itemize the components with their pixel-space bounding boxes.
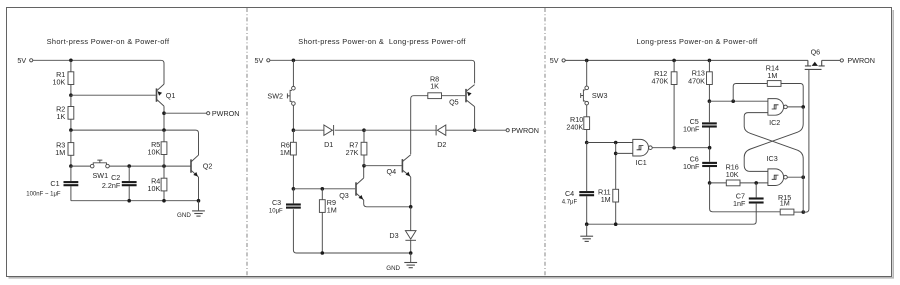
svg-text:SW3: SW3: [592, 91, 608, 100]
label C4 4.7uF: [562, 189, 578, 206]
wire 5V rail to Q5 emitter: [270, 60, 475, 83]
wire IC3 output: [787, 176, 803, 178]
wire D1 cathode to R7 node: [335, 129, 364, 131]
svg-text:Long-press Power-on & Power-of: Long-press Power-on & Power-off: [636, 37, 758, 46]
svg-text:D3: D3: [389, 231, 398, 240]
label C2 2.2nF: [102, 173, 121, 190]
resistor R5: [161, 142, 167, 155]
terminal PWRON P2: [506, 126, 539, 135]
svg-text:Short-press Power-on & Power-o: Short-press Power-on & Power-off: [47, 37, 170, 46]
wire D2 anode to PWRON node: [446, 129, 475, 131]
label R3 1M: [55, 141, 65, 158]
node C7 top: [754, 181, 758, 185]
wire IC2 top input line: [709, 100, 768, 102]
wire C1 leads: [70, 166, 72, 201]
resistor R16: [726, 180, 740, 186]
node rail/SW3: [585, 59, 589, 63]
label R4 10K: [148, 176, 161, 193]
label R1 10K: [53, 70, 66, 87]
diode D1: [324, 125, 334, 135]
svg-text:10K: 10K: [53, 77, 66, 86]
wire R2 leads: [70, 95, 72, 130]
wire R6 leads: [292, 130, 294, 189]
resistor R14: [767, 81, 781, 87]
wire SW3 top lead: [586, 60, 588, 86]
wire C2 leads: [128, 166, 130, 201]
wire latch cross-coupling IC2 out to IC3 input: [744, 107, 803, 171]
wire R7 leads: [363, 130, 365, 166]
node rail/SW2: [292, 59, 296, 63]
label R14 1M: [766, 64, 779, 80]
svg-text:Short-press Power-on & Long-p: Short-press Power-on & Long-press Power-…: [298, 37, 466, 46]
capacitor C4: [579, 192, 594, 195]
capacitor C3: [286, 205, 301, 208]
capacitor C2: [122, 182, 137, 185]
wire SW3 to R10: [586, 105, 588, 117]
resistor R12: [671, 72, 677, 85]
label C1 100nF-1uF: [26, 179, 61, 198]
wire Q3 base line: [293, 188, 355, 190]
svg-text:Q5: Q5: [449, 97, 459, 106]
wire Q6 drain to PWRON: [822, 59, 841, 61]
svg-text:PWRON: PWRON: [847, 56, 875, 65]
svg-text:1M: 1M: [55, 148, 65, 157]
svg-text:Q3: Q3: [339, 191, 349, 200]
node R10/C4/IC1: [585, 141, 589, 145]
label R7 27K: [346, 140, 359, 157]
switch SW1: [90, 160, 109, 168]
wire 5V rail to Q1 emitter: [33, 60, 164, 84]
svg-text:SW2: SW2: [267, 91, 283, 100]
wire IC1 lower input stub: [616, 152, 633, 154]
svg-text:5V: 5V: [255, 56, 264, 65]
ground symbol P3: [580, 224, 593, 241]
node IC2 output: [801, 105, 805, 109]
svg-text:10K: 10K: [726, 170, 739, 179]
wire Q4 base line: [364, 165, 402, 167]
resistor R11: [613, 189, 619, 202]
svg-text:240K: 240K: [566, 122, 583, 131]
svg-text:GND: GND: [177, 212, 191, 219]
node rail/R12: [672, 59, 676, 63]
node rail/R1: [69, 59, 73, 63]
resistor R2: [68, 107, 74, 120]
5V supply terminal P1: [17, 56, 32, 65]
switch SW2: [287, 86, 295, 105]
IC 3 schmitt NAND gate: [768, 169, 787, 186]
resistor R15: [780, 209, 794, 215]
node R2/R3 rail: [69, 128, 73, 132]
wire Q5 collector: [474, 107, 476, 131]
svg-text:SW1: SW1: [93, 171, 109, 180]
transistor Q6 PMOS: [805, 60, 825, 69]
svg-text:Q2: Q2: [203, 162, 213, 171]
node C2 top: [127, 164, 131, 168]
wire Q1 collector to PWRON node: [163, 106, 165, 130]
svg-text:1K: 1K: [57, 112, 66, 121]
svg-text:Q1: Q1: [166, 91, 176, 100]
wire Q4 emitter drop: [410, 177, 412, 207]
label C5 10nF: [683, 117, 700, 134]
IC 1 schmitt NAND gate: [633, 139, 652, 156]
wire D1 anode: [293, 129, 323, 131]
wire R10 to IC1 input node: [586, 130, 588, 143]
node C6/R16 line: [708, 181, 712, 185]
node R6/C3/R9: [292, 187, 296, 191]
resistor R10: [584, 117, 590, 130]
transistor Q3: [356, 178, 364, 200]
transistor Q5: [466, 85, 475, 107]
wire SW1 left lead: [71, 165, 91, 167]
svg-text:1M: 1M: [601, 195, 611, 204]
svg-text:GND: GND: [386, 265, 400, 272]
resistor R1: [68, 72, 74, 85]
svg-text:IC2: IC2: [769, 118, 780, 127]
svg-text:C4: C4: [565, 189, 574, 198]
wire R9 leads: [321, 189, 323, 253]
node SW2/R6/D1: [292, 128, 296, 132]
svg-text:PWRON: PWRON: [212, 109, 240, 118]
5V supply terminal P3: [550, 56, 565, 65]
label R9 1M: [327, 198, 337, 215]
wire R7 node to D2: [364, 129, 436, 131]
svg-text:D1: D1: [324, 140, 333, 149]
node R4 bottom: [162, 199, 166, 203]
wire R3 leads: [70, 130, 72, 166]
node R1/R2/Q1 base: [69, 93, 73, 97]
node IC1 output/C5/C6 rail: [708, 146, 712, 150]
node Q5 collector/PWRON: [473, 128, 477, 132]
wire R13 leads: [708, 60, 710, 101]
svg-text:10nF: 10nF: [683, 125, 700, 134]
wire R14 right lead down to IC2 output: [781, 84, 803, 107]
svg-text:470K: 470K: [688, 77, 705, 86]
switch SW3: [581, 86, 589, 105]
svg-text:C1: C1: [50, 179, 59, 188]
svg-text:1K: 1K: [430, 82, 439, 91]
label R16 10K: [726, 163, 739, 179]
wire R4 leads: [163, 166, 165, 201]
node Q3/Q4 emitters: [409, 205, 413, 209]
ground symbol P2: [404, 253, 417, 268]
node IC1 inputs tie: [614, 141, 618, 145]
capacitor C7: [749, 199, 764, 203]
svg-text:100nF ~ 1μF: 100nF ~ 1μF: [26, 192, 61, 198]
node R12 bottom on IC1 output: [672, 146, 676, 150]
wire R14 left riser: [733, 84, 767, 102]
wire R15 right lead: [794, 211, 803, 213]
svg-text:1M: 1M: [280, 148, 290, 157]
label C7 1nF: [733, 191, 746, 208]
wire C5 leads: [708, 101, 710, 148]
svg-text:D2: D2: [437, 140, 446, 149]
svg-text:1nF: 1nF: [733, 199, 746, 208]
wire R1 leads: [70, 60, 72, 95]
wire latch cross-coupling IC3 out to IC2 input: [744, 113, 803, 178]
svg-text:470K: 470K: [652, 76, 669, 85]
node IC3 output: [801, 175, 805, 179]
wire IC2 output: [787, 106, 803, 108]
label C3 10uF: [269, 198, 283, 215]
node Q2 emitter/GND: [197, 199, 201, 203]
node ground rail/R11: [614, 222, 618, 226]
node R9 bottom: [321, 251, 325, 255]
svg-text:1M: 1M: [327, 206, 337, 215]
wire R5 leads: [163, 130, 165, 166]
svg-text:10K: 10K: [148, 147, 161, 156]
node R7 top: [362, 128, 366, 132]
wire C4 leads: [586, 143, 588, 225]
wire Q2 emitter to ground rail: [198, 177, 200, 201]
capacitor C5: [702, 123, 717, 126]
wire SW2 bottom lead: [292, 105, 294, 130]
diode D2: [436, 125, 446, 135]
svg-text:27K: 27K: [346, 148, 359, 157]
label R15 1M: [778, 193, 791, 208]
resistor R3: [68, 143, 74, 156]
transistor Q2: [191, 155, 199, 177]
node rail/R13: [708, 59, 712, 63]
node R14 left tap: [731, 99, 735, 103]
label R2 1K: [56, 105, 65, 122]
node D3/ground rail: [409, 251, 413, 255]
node R9 top: [321, 187, 325, 191]
capacitor C1: [64, 182, 79, 185]
node R7/Q3/Q4 base: [362, 164, 366, 168]
wire PWRON stub P2: [475, 129, 507, 131]
diode D3: [405, 231, 416, 241]
wire C3 leads and ground rail P2: [293, 189, 410, 253]
wire D3 leads: [410, 207, 412, 253]
wire Q3 collector: [363, 166, 365, 178]
wire C7 top lead: [755, 183, 757, 198]
svg-text:Q4: Q4: [387, 167, 397, 176]
node R15/IC3 output drop/Q6 gate: [802, 210, 806, 214]
node IC1 lower input: [614, 152, 618, 156]
svg-text:2.2nF: 2.2nF: [102, 181, 121, 190]
label R5 10K: [148, 140, 161, 157]
wire R8 to Q5 base: [442, 95, 466, 97]
terminal PWRON P1: [207, 109, 240, 118]
wire Q1 base: [71, 94, 156, 96]
node PWRON P1: [162, 111, 166, 115]
wire mid rail R2 to Q2 collector: [71, 130, 199, 155]
capacitor C6: [702, 163, 717, 166]
node R3/C1/SW1: [69, 164, 73, 168]
dashed panel separator 2: [544, 8, 546, 276]
resistor R7: [361, 142, 367, 155]
wire ground rail P1: [71, 200, 199, 202]
node R5/R4: [162, 164, 166, 168]
wire R16 line to IC3 input: [710, 182, 768, 184]
resistor R9: [319, 200, 325, 213]
wire IC3 output down to R15 node: [802, 177, 804, 212]
svg-text:IC1: IC1: [636, 158, 647, 167]
wire SW1 to Q2 base: [109, 165, 191, 167]
svg-text:5V: 5V: [17, 56, 26, 65]
ground symbol P1: [192, 201, 205, 216]
node R13/C5/IC2 input: [708, 99, 712, 103]
5V supply terminal P2: [255, 56, 270, 65]
node ground rail/C4: [585, 222, 589, 226]
transistor Q1: [157, 84, 165, 106]
svg-text:10μF: 10μF: [269, 208, 283, 214]
node C2 bottom: [127, 199, 131, 203]
svg-text:10K: 10K: [148, 184, 161, 193]
wire Q6 gate down to R15 node: [803, 69, 809, 212]
transistor Q4: [402, 155, 410, 177]
svg-text:10nF: 10nF: [683, 162, 700, 171]
wire PWRON stub P1: [164, 112, 207, 114]
label R11 1M: [598, 187, 611, 204]
label R8 1K: [430, 75, 439, 91]
terminal PWRON P3: [840, 56, 875, 65]
node R5 top: [162, 128, 166, 132]
wire R12 leads: [673, 60, 675, 147]
label R12 470K: [652, 69, 669, 86]
svg-text:IC3: IC3: [767, 154, 778, 163]
resistor R6: [291, 142, 297, 155]
resistor R4: [161, 178, 167, 191]
svg-text:5V: 5V: [550, 56, 559, 65]
dashed panel separator 1: [246, 8, 248, 276]
wire IC1 output line: [652, 147, 710, 149]
wire SW2 top lead: [292, 60, 294, 86]
wire IC1 input tie down to R11: [615, 143, 617, 190]
resistor R13: [707, 72, 713, 85]
wire R11 leads: [615, 202, 617, 224]
wire C7 bottom lead to ground rail: [587, 204, 757, 225]
wire R8 horizontal and Q4 collector riser: [411, 96, 428, 155]
label R10 240K: [566, 115, 583, 131]
IC 2 schmitt NAND gate: [768, 99, 787, 116]
wire C6 rail down to R15 line: [710, 183, 781, 212]
svg-text:C3: C3: [272, 198, 281, 207]
wire Q3 emitter to Q4 emitter node: [364, 200, 411, 207]
svg-text:1M: 1M: [780, 199, 790, 208]
svg-text:1M: 1M: [767, 71, 777, 80]
wire C6 leads: [709, 148, 711, 183]
resistor R8: [428, 93, 442, 99]
wire IC1 input line: [587, 142, 633, 144]
label R6 1M: [280, 140, 290, 157]
label C6 10nF: [683, 155, 700, 172]
label R13 470K: [688, 69, 705, 86]
svg-text:Q6: Q6: [811, 47, 821, 56]
svg-text:4.7μF: 4.7μF: [562, 200, 578, 206]
wire 5V rail P3: [565, 59, 808, 61]
svg-text:PWRON: PWRON: [511, 126, 539, 135]
